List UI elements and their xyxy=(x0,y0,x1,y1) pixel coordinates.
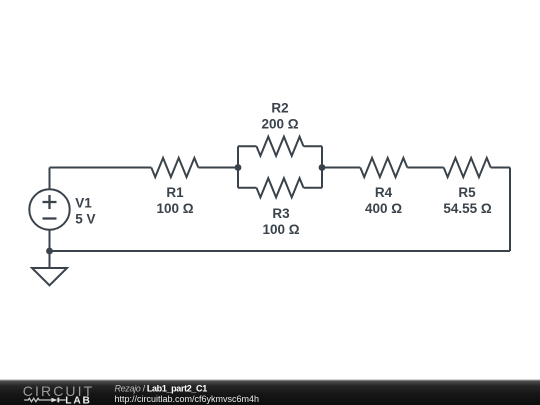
wire R1 to node A xyxy=(198,167,238,169)
svg-text:http://circuitlab.com/cf6ykmvs: http://circuitlab.com/cf6ykmvsc6m4h xyxy=(115,394,260,404)
svg-text:5 V: 5 V xyxy=(75,211,95,226)
svg-text:V1: V1 xyxy=(75,195,92,210)
logo diode wire xyxy=(59,399,65,401)
svg-text:LAB: LAB xyxy=(65,395,91,405)
V1 plus symbol xyxy=(43,195,57,209)
wire parallel box right vertical xyxy=(321,146,323,188)
svg-text:R3: R3 xyxy=(272,206,290,221)
svg-text:400 Ω: 400 Ω xyxy=(365,201,402,216)
wire parallel box left vertical xyxy=(237,146,239,188)
svg-text:R5: R5 xyxy=(458,185,476,200)
ground xyxy=(32,268,67,285)
wire top branch left xyxy=(238,145,257,147)
resistor R5 xyxy=(444,158,491,177)
wire bottom branch left xyxy=(238,187,257,189)
resistor R3 xyxy=(257,178,304,197)
node junction dot bottom-left xyxy=(46,248,53,255)
wire bottom branch right xyxy=(304,187,323,189)
wire R5 to top-right corner xyxy=(491,167,510,169)
svg-text:Rezajo / Lab1_part2_C1: Rezajo / Lab1_part2_C1 xyxy=(115,384,208,394)
node B dot (right of parallel pair) xyxy=(319,164,326,171)
node A dot (left of parallel pair) xyxy=(235,164,242,171)
footer separator line xyxy=(0,380,540,381)
logo diode xyxy=(51,398,57,403)
voltage source V1 xyxy=(29,189,69,229)
wire V1 bottom vertical to ground xyxy=(49,230,51,268)
svg-text:R2: R2 xyxy=(271,101,288,116)
footer black bar xyxy=(0,381,540,405)
resistor R4 xyxy=(360,158,407,177)
svg-text:100 Ω: 100 Ω xyxy=(262,222,299,237)
wire left vertical (top corner to V1 plus terminal) xyxy=(49,168,51,190)
resistor R2 xyxy=(257,137,304,156)
svg-text:200 Ω: 200 Ω xyxy=(261,117,298,132)
V1 minus symbol xyxy=(43,217,57,219)
svg-text:R4: R4 xyxy=(375,185,393,200)
wire top branch right xyxy=(304,145,323,147)
wire node B to R4 xyxy=(322,167,360,169)
resistor R1 xyxy=(151,158,198,177)
svg-text:100 Ω: 100 Ω xyxy=(156,201,193,216)
wire top-left horizontal (V1 top to R1) xyxy=(50,167,152,169)
wire R4 to R5 xyxy=(407,167,443,169)
wire right vertical xyxy=(509,168,511,252)
svg-text:R1: R1 xyxy=(166,185,184,200)
svg-text:54.55 Ω: 54.55 Ω xyxy=(443,201,492,216)
wire bottom horizontal xyxy=(50,250,511,252)
logo resistor zigzag xyxy=(24,398,51,401)
